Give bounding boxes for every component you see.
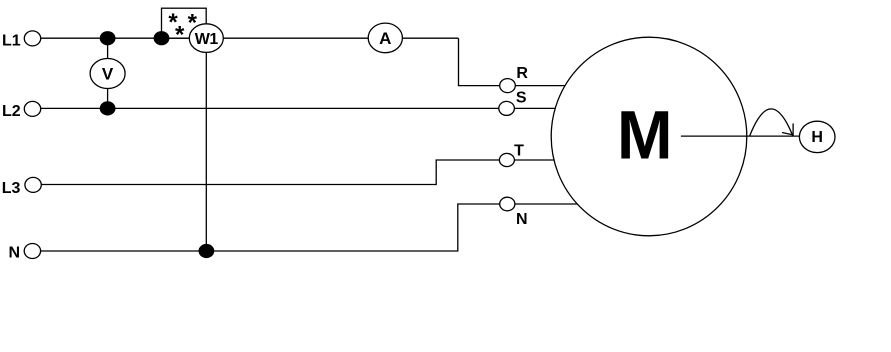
svg-text:*: * xyxy=(175,22,185,49)
rotation arrow arc xyxy=(750,109,793,136)
wire S to motor xyxy=(514,107,555,109)
svg-text:T: T xyxy=(514,142,524,159)
wattmeter W1 xyxy=(189,24,223,53)
svg-text:L1: L1 xyxy=(2,32,21,49)
svg-text:L2: L2 xyxy=(2,103,21,120)
wire corner down to R xyxy=(459,38,500,85)
polarity marking box of W1 xyxy=(162,8,207,48)
wire N to motor xyxy=(515,203,579,205)
svg-text:M: M xyxy=(617,96,673,173)
tachometer H xyxy=(799,121,835,152)
ammeter A xyxy=(368,23,402,53)
terminal N supply xyxy=(24,244,40,259)
svg-text:N: N xyxy=(9,245,21,262)
svg-text:A: A xyxy=(379,29,391,48)
wire R to motor xyxy=(515,85,565,87)
terminal S xyxy=(499,101,515,115)
terminal L2 xyxy=(24,101,40,116)
wire voltmeter branch bottom xyxy=(107,88,109,108)
wire N xyxy=(41,204,500,251)
svg-text:L3: L3 xyxy=(2,180,21,197)
svg-text:V: V xyxy=(102,65,114,84)
node junction N-W1 branch xyxy=(199,244,215,258)
svg-text:N: N xyxy=(516,211,528,228)
motor M xyxy=(551,37,747,236)
terminal N motor xyxy=(500,197,515,211)
node junction L1-W1 branch xyxy=(154,31,170,45)
terminal L1 xyxy=(24,31,40,46)
wire L2 xyxy=(41,107,499,109)
wire W1 voltage branch (down to N) xyxy=(205,52,207,251)
wire voltmeter branch top xyxy=(107,38,109,59)
wire T to motor xyxy=(514,159,554,161)
voltmeter V xyxy=(90,59,125,89)
wire L3 xyxy=(42,160,500,185)
svg-text:S: S xyxy=(516,90,527,107)
svg-text:H: H xyxy=(811,129,823,146)
wire L1 segment 3 (A to corner) xyxy=(403,37,459,39)
svg-text:W1: W1 xyxy=(195,31,219,48)
node junction L2-V xyxy=(100,101,116,115)
wire L1 segment 2 (W1 to A) xyxy=(223,37,368,39)
wire motor shaft to H xyxy=(681,135,799,137)
terminal T xyxy=(499,153,514,166)
wire L1 segment 1 xyxy=(41,37,190,39)
node junction L1-V xyxy=(100,31,116,45)
terminal R xyxy=(500,79,516,93)
svg-text:R: R xyxy=(516,65,528,82)
terminal L3 xyxy=(25,177,41,192)
